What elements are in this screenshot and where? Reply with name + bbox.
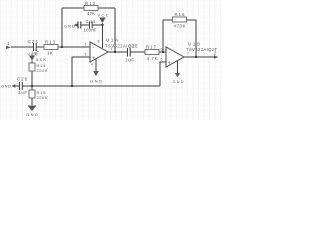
wire R17 to U1B inverting input <box>159 51 166 53</box>
VCC power port above U1A pin8 <box>98 14 109 24</box>
wire VCC stub U1A pin8 <box>102 23 104 48</box>
wire divider middle <box>31 71 33 90</box>
junction U1B inverting node <box>162 51 164 53</box>
capacitor C12 electrolytic decoupling <box>78 22 81 29</box>
wire divider bottom <box>31 98 33 105</box>
svg-text:GND: GND <box>173 80 184 84</box>
junction U1B output node <box>195 56 197 58</box>
svg-text:R17: R17 <box>146 45 157 50</box>
svg-text:C11: C11 <box>86 19 97 24</box>
svg-text:VCC: VCC <box>98 14 109 18</box>
op-amp U1A <box>85 38 138 67</box>
svg-text:U1A: U1A <box>106 38 118 43</box>
junction divider mid node <box>31 85 33 87</box>
wire feedback U1A top <box>62 7 84 9</box>
svg-text:TSV622AIQ2T: TSV622AIQ2T <box>186 47 217 52</box>
svg-text:56K: 56K <box>36 57 46 62</box>
svg-text:GND: GND <box>1 84 11 89</box>
svg-text:100nF: 100nF <box>84 28 97 33</box>
junction VCC node <box>101 24 103 26</box>
resistor R14 220K upper divider <box>29 63 48 73</box>
port 2 output terminal <box>214 51 219 59</box>
wire feedback right vertical to output <box>114 8 116 52</box>
wire input line <box>11 46 33 48</box>
wire GND stub U1B <box>177 61 179 73</box>
wire C26 to node <box>23 85 33 87</box>
svg-text:5: 5 <box>161 58 163 62</box>
resistor R17 4.7K interstage <box>145 45 159 62</box>
GND power port at U1A pin4 <box>90 71 102 84</box>
svg-text:4: 4 <box>91 63 93 67</box>
svg-text:C22: C22 <box>129 44 139 49</box>
resistor R12 47K (U1A feedback) <box>84 1 98 16</box>
wire U1B plus input <box>160 62 166 86</box>
wire U1A output to C22 <box>108 51 127 53</box>
capacitor C11 100nF decoupling <box>90 22 93 29</box>
svg-text:U1B: U1B <box>188 42 200 47</box>
svg-text:6: 6 <box>161 48 163 52</box>
svg-text:47K: 47K <box>87 11 95 16</box>
port 1 input terminal <box>6 41 11 49</box>
GND port of decoupling caps <box>64 23 78 28</box>
svg-text:C26: C26 <box>17 77 28 82</box>
GND port left of C26 <box>1 84 15 89</box>
VCC power port above divider <box>28 53 38 61</box>
wire feedback left vertical <box>61 8 63 47</box>
svg-text:1uF: 1uF <box>18 90 27 95</box>
svg-text:C21: C21 <box>28 39 39 44</box>
wire C22 to R17 <box>131 51 146 53</box>
svg-text:R13: R13 <box>45 40 56 45</box>
svg-text:+: + <box>92 56 95 62</box>
svg-text:220K: 220K <box>37 95 48 100</box>
svg-text:R12: R12 <box>85 1 96 6</box>
svg-text:7: 7 <box>187 52 189 56</box>
junction U1A output node <box>114 51 116 53</box>
svg-text:470K: 470K <box>174 24 186 29</box>
wire GND stub U1A pin4 <box>95 59 97 71</box>
junction node A (feedback / R13 / U1A- ) <box>61 46 63 48</box>
capacitor C21 input coupling <box>34 43 37 51</box>
capacitor C26 bias decoupling <box>20 82 23 90</box>
wire bias rail <box>32 85 160 87</box>
resistor R16 470K U1B feedback <box>173 12 187 29</box>
svg-text:GND: GND <box>90 79 102 84</box>
svg-text:220K: 220K <box>37 68 48 73</box>
wire U1B feedback loop <box>163 20 173 52</box>
wire divider top <box>31 61 33 64</box>
capacitor C22 interstage coupling <box>128 48 131 57</box>
wire U1A plus input <box>72 57 90 86</box>
svg-text:+: + <box>168 61 171 67</box>
svg-text:1uF: 1uF <box>125 58 134 63</box>
resistor R15 220K lower divider <box>29 90 48 100</box>
svg-text:1: 1 <box>7 41 10 46</box>
background grid <box>1 0 221 120</box>
svg-text:8: 8 <box>98 40 100 44</box>
GND stub arrow below U1B <box>173 73 184 84</box>
svg-text:4.7K: 4.7K <box>147 56 158 61</box>
svg-text:1K: 1K <box>47 51 53 56</box>
wire U1B output <box>184 56 214 58</box>
svg-text:3: 3 <box>85 53 87 57</box>
GND power port divider bottom <box>26 106 38 118</box>
op-amp U1B <box>161 42 218 68</box>
svg-text:GND: GND <box>64 24 75 29</box>
resistor R13 input series <box>44 40 58 56</box>
svg-text:2: 2 <box>85 43 87 47</box>
svg-text:GND: GND <box>26 112 38 117</box>
junction bias node at U1A+ <box>71 85 73 87</box>
wire decoupling row <box>81 24 90 26</box>
svg-text:R16: R16 <box>175 12 186 17</box>
